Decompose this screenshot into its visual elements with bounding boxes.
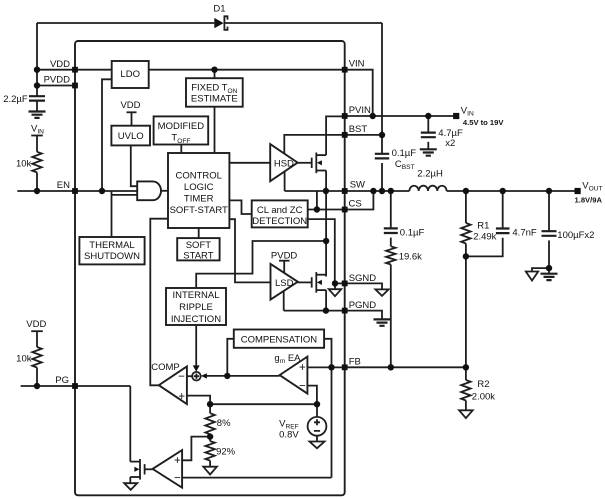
svg-text:gm EA: gm EA (274, 353, 301, 365)
svg-text:SW: SW (350, 180, 365, 191)
svg-text:START: START (183, 251, 213, 262)
svg-text:8%: 8% (217, 418, 231, 429)
svg-text:2.2µF: 2.2µF (3, 94, 28, 105)
svg-text:0.8V: 0.8V (279, 430, 299, 441)
svg-text:CONTROL: CONTROL (175, 170, 221, 181)
svg-text:CS: CS (349, 198, 362, 209)
svg-text:1.8V/9A: 1.8V/9A (575, 195, 603, 204)
svg-text:D1: D1 (213, 4, 225, 15)
svg-text:10k: 10k (16, 353, 32, 364)
svg-text:CL and ZC: CL and ZC (257, 205, 303, 216)
svg-text:MODIFIED: MODIFIED (158, 121, 205, 132)
svg-text:SGND: SGND (349, 273, 377, 284)
svg-text:VDD: VDD (26, 319, 46, 330)
svg-text:LDO: LDO (120, 69, 140, 80)
svg-text:19.6k: 19.6k (399, 251, 422, 262)
svg-text:0.1µF: 0.1µF (400, 227, 425, 238)
svg-text:UVLO: UVLO (118, 131, 144, 142)
svg-text:SOFT-START: SOFT-START (170, 205, 228, 216)
svg-text:DETECTION: DETECTION (252, 216, 307, 227)
svg-text:SHUTDOWN: SHUTDOWN (84, 251, 140, 262)
svg-text:LSD: LSD (275, 278, 294, 289)
svg-text:PG: PG (55, 375, 69, 386)
svg-text:R2: R2 (477, 379, 489, 390)
svg-text:BST: BST (349, 124, 368, 135)
svg-text:4.7nF: 4.7nF (512, 227, 536, 238)
svg-text:SOFT: SOFT (186, 240, 212, 251)
svg-text:LOGIC: LOGIC (184, 182, 214, 193)
svg-text:COMPENSATION: COMPENSATION (241, 334, 317, 345)
svg-text:ESTIMATE: ESTIMATE (191, 93, 238, 104)
svg-text:−: − (178, 371, 185, 383)
svg-text:2.00k: 2.00k (472, 391, 495, 402)
svg-text:EN: EN (57, 180, 70, 191)
svg-text:0.1µF: 0.1µF (392, 148, 417, 159)
svg-text:THERMAL: THERMAL (89, 240, 134, 251)
svg-text:−: − (174, 473, 181, 485)
svg-text:−: − (299, 381, 306, 393)
svg-text:VIN: VIN (349, 58, 365, 69)
svg-text:PGND: PGND (349, 300, 377, 311)
svg-text:2.2µH: 2.2µH (417, 169, 443, 180)
svg-text:VDD: VDD (120, 100, 140, 111)
svg-text:10k: 10k (16, 158, 32, 169)
svg-text:+: + (299, 362, 306, 374)
svg-text:R1: R1 (477, 220, 489, 231)
svg-text:+: + (178, 391, 185, 403)
svg-text:+: + (174, 455, 181, 467)
svg-text:VDD: VDD (50, 59, 70, 70)
svg-text:PVDD: PVDD (271, 250, 298, 261)
svg-text:92%: 92% (216, 446, 236, 457)
svg-text:INTERNAL: INTERNAL (173, 290, 220, 301)
svg-text:FB: FB (349, 357, 361, 368)
svg-text:RIPPLE: RIPPLE (179, 302, 213, 313)
svg-text:INJECTION: INJECTION (171, 314, 221, 325)
svg-text:4.5V to 19V: 4.5V to 19V (463, 118, 504, 127)
svg-text:2.49k: 2.49k (473, 232, 496, 243)
svg-text:COMP: COMP (151, 362, 180, 373)
svg-text:100µFx2: 100µFx2 (557, 230, 594, 241)
svg-text:x2: x2 (445, 138, 455, 149)
svg-text:HSD: HSD (274, 159, 294, 170)
svg-text:PVIN: PVIN (349, 105, 371, 116)
svg-text:TIMER: TIMER (184, 194, 214, 205)
svg-text:PVDD: PVDD (44, 74, 71, 85)
